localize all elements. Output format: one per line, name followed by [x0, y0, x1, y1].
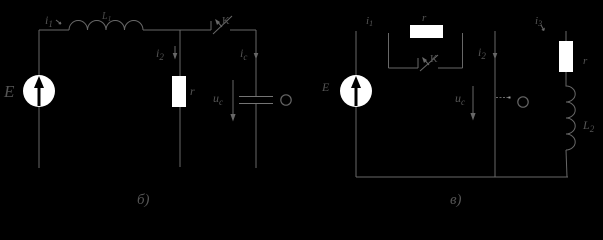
wire: capacitor branch upper	[255, 30, 257, 96]
switch K1 arrow	[215, 19, 222, 27]
middle branch lower wire	[179, 107, 181, 167]
wire: source top vertical	[38, 30, 40, 75]
capacitor plate ghost (right)	[496, 97, 509, 99]
wire: switch to right corner	[230, 29, 256, 31]
svg-text:E: E	[3, 82, 15, 101]
voltage arrow u_c (down)	[230, 80, 235, 122]
switch K1 contact tick	[210, 21, 212, 30]
voltage arrow u_c (right, down)	[470, 86, 475, 121]
wire: coil to switch	[143, 29, 211, 31]
svg-text:E: E	[321, 80, 330, 94]
bypass left stub	[388, 33, 390, 68]
resistor r (bypass, right circuit)	[410, 25, 443, 38]
far-right branch top	[565, 31, 567, 41]
middle branch upper wire	[179, 30, 181, 76]
svg-text:r: r	[190, 84, 195, 98]
wire below source	[38, 107, 40, 168]
wire coil to rail	[566, 150, 567, 177]
current source E (left)	[23, 75, 55, 107]
svg-text:в): в)	[450, 192, 462, 208]
switch K2 arrow	[422, 57, 429, 65]
resistor r (far right)	[559, 41, 573, 72]
switch K1 blade	[213, 16, 232, 34]
svg-text:r: r	[422, 12, 427, 24]
switch K2 blade	[420, 55, 438, 71]
wire: source top vertical	[355, 31, 357, 75]
bypass right stub	[462, 33, 464, 68]
resistor r (left circuit)	[172, 76, 186, 107]
svg-text:б): б)	[137, 192, 150, 208]
plate end dot	[509, 97, 511, 99]
capacitor C plate top	[239, 96, 273, 98]
switch K2 right wire	[438, 67, 463, 69]
svg-text:r: r	[583, 55, 588, 67]
current source E (right)	[340, 75, 372, 107]
wire: top-left horizontal to coil	[39, 29, 69, 31]
svg-text:К: К	[222, 15, 230, 27]
inductor L1 (4 humps)	[69, 21, 143, 30]
wire rect to coil	[565, 72, 567, 84]
inductor L2 (4 loops, bulge right)	[566, 84, 575, 150]
wire below right source	[355, 107, 357, 177]
wire: capacitor branch lower	[255, 104, 257, 168]
label C (ring ghost)	[281, 95, 291, 105]
switch K2 tick	[417, 58, 419, 68]
capacitor C plate bottom	[239, 103, 273, 105]
label C (ring ghost, right)	[518, 97, 528, 107]
svg-text:К: К	[430, 53, 438, 65]
switch K2 left wire	[389, 67, 419, 69]
bottom rail (right circuit)	[356, 176, 568, 178]
capacitor branch (right circuit)	[494, 31, 496, 177]
